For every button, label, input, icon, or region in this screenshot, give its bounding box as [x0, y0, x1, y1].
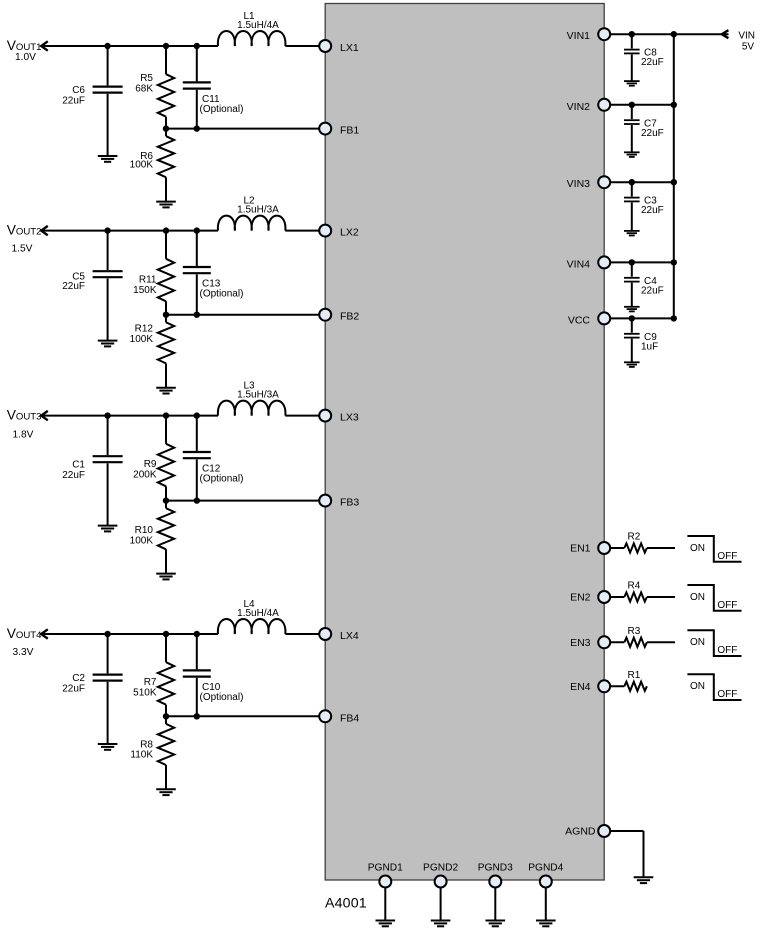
- ground under R6: [156, 202, 176, 208]
- pin EN2: [598, 591, 610, 603]
- value label C8 22uF: [641, 48, 664, 68]
- pin FB3: [319, 495, 331, 507]
- ground under C2: [98, 744, 118, 750]
- value label L4 1.5uH/4A: [237, 599, 279, 619]
- value label C12 (Optional): [200, 464, 244, 485]
- wire FB4 net: [166, 715, 325, 717]
- wire R4 to switch: [647, 596, 675, 598]
- svg-text:1.5uH/3A: 1.5uH/3A: [237, 390, 279, 401]
- junction at C10 top: [194, 631, 200, 637]
- svg-text:EN1: EN1: [570, 543, 591, 555]
- wire AGND to ground: [604, 831, 643, 877]
- junction C3 top: [629, 179, 635, 185]
- svg-text:68K: 68K: [135, 84, 153, 95]
- wire FB3 net: [166, 500, 325, 502]
- inductor L2: [218, 216, 286, 231]
- pin PGND3: [489, 876, 501, 888]
- svg-text:1.5uH/4A: 1.5uH/4A: [237, 608, 279, 619]
- svg-text:5V: 5V: [742, 42, 755, 53]
- svg-text:VIN: VIN: [738, 31, 755, 42]
- junction bus at VIN4: [671, 259, 677, 265]
- wire LX4 from inductor to pin: [285, 633, 325, 635]
- junction C4 top: [629, 259, 635, 265]
- capacitor C11 (optional): [183, 46, 211, 129]
- svg-text:OFF: OFF: [717, 689, 737, 700]
- svg-text:ON: ON: [690, 637, 705, 648]
- svg-text:FB3: FB3: [340, 497, 359, 509]
- value label C11 (Optional): [200, 94, 244, 115]
- svg-text:FB1: FB1: [340, 125, 359, 137]
- pin PGND1: [379, 876, 391, 888]
- svg-text:100K: 100K: [130, 160, 154, 171]
- svg-text:22uF: 22uF: [62, 281, 85, 292]
- junction C13 bottom: [194, 312, 200, 318]
- wire EN4 pin to resistor: [604, 685, 624, 687]
- pin FB4: [319, 710, 331, 722]
- junction R11/R12 divider node: [163, 312, 169, 318]
- svg-text:1uF: 1uF: [641, 341, 658, 352]
- switch EN2 ON/OFF: [687, 585, 741, 611]
- pin PGND4: [540, 876, 552, 888]
- value label C7 22uF: [641, 118, 664, 139]
- ground under C7: [624, 152, 640, 157]
- value label R12 100K: [130, 324, 154, 346]
- resistor R12: [158, 315, 174, 388]
- svg-text:C1: C1: [72, 460, 85, 471]
- wire FB2 net: [166, 314, 325, 316]
- svg-text:22uF: 22uF: [641, 128, 664, 139]
- junction bus at VCC: [671, 315, 677, 321]
- svg-text:LX2: LX2: [340, 227, 359, 239]
- wire PGND4 to ground: [545, 887, 547, 921]
- svg-text:ON: ON: [690, 543, 705, 554]
- value label C2 22uF: [62, 673, 85, 695]
- resistor R7: [158, 634, 174, 716]
- ground PGND3: [486, 921, 506, 927]
- pin LX1: [319, 40, 331, 52]
- junction R9/R10 divider node: [163, 497, 169, 503]
- svg-text:R2: R2: [628, 532, 641, 543]
- svg-text:VCC: VCC: [568, 314, 591, 326]
- svg-text:(Optional): (Optional): [200, 692, 244, 703]
- pin LX2: [319, 225, 331, 237]
- value label R9 200K: [133, 459, 157, 481]
- wire VOUT2 output net with arrow: [41, 226, 218, 235]
- svg-text:FB2: FB2: [340, 311, 359, 323]
- svg-text:(Optional): (Optional): [200, 104, 244, 115]
- wire VOUT4 output net with arrow: [41, 629, 218, 638]
- svg-text:22uF: 22uF: [641, 205, 664, 216]
- svg-text:VOUT4: VOUT4: [7, 626, 42, 641]
- svg-text:PGND4: PGND4: [528, 862, 563, 873]
- pin EN4: [598, 680, 610, 692]
- wire EN3 pin to resistor: [604, 641, 624, 643]
- switch EN4 ON/OFF: [687, 674, 741, 700]
- svg-text:PGND3: PGND3: [478, 862, 513, 873]
- resistor R5: [158, 46, 174, 129]
- ground PGND1: [376, 921, 396, 927]
- svg-text:FB4: FB4: [340, 712, 359, 724]
- svg-text:VIN2: VIN2: [567, 101, 591, 113]
- junction at C11 top: [194, 43, 200, 49]
- value label R6 100K: [130, 151, 154, 171]
- svg-text:VIN3: VIN3: [567, 178, 591, 190]
- pin PGND2: [435, 876, 447, 888]
- wire VIN bus vertical: [673, 34, 675, 318]
- capacitor C13 (optional): [183, 231, 211, 315]
- value label R8 110K: [130, 739, 153, 760]
- svg-text:R4: R4: [628, 581, 641, 592]
- junction bus at VIN2: [671, 102, 677, 108]
- wire VIN3 to bus: [604, 181, 674, 183]
- pin LX4: [319, 628, 331, 640]
- svg-text:1.5V: 1.5V: [12, 243, 33, 254]
- capacitor C6: [93, 46, 123, 156]
- capacitor C8: [624, 34, 640, 80]
- ground under C6: [98, 156, 118, 162]
- capacitor C9: [624, 318, 640, 361]
- pin VIN1: [598, 28, 610, 40]
- ground PGND2: [431, 921, 451, 927]
- svg-text:1.8V: 1.8V: [13, 429, 34, 440]
- svg-text:R5: R5: [140, 73, 153, 84]
- ground under C4: [624, 307, 640, 312]
- junction at R11 top: [163, 227, 169, 233]
- junction C7 top: [629, 102, 635, 108]
- value label C1 22uF: [62, 460, 85, 482]
- svg-text:110K: 110K: [130, 749, 153, 760]
- junction C11 bottom: [194, 125, 200, 131]
- svg-text:R9: R9: [144, 459, 157, 470]
- value label R11 150K: [133, 275, 157, 297]
- capacitor C3: [624, 182, 640, 230]
- junction at R7 top: [163, 631, 169, 637]
- wire VIN2 to bus: [604, 104, 674, 106]
- wire LX1 from inductor to pin: [285, 45, 325, 47]
- wire VOUT3 output net with arrow: [41, 411, 218, 420]
- ground under R12: [156, 388, 176, 394]
- svg-text:OFF: OFF: [717, 551, 737, 562]
- wire EN2 pin to resistor: [604, 596, 624, 598]
- pin VIN3: [598, 176, 610, 188]
- junction at C13 top: [194, 227, 200, 233]
- capacitor C7: [624, 105, 640, 152]
- pin VIN4: [598, 256, 610, 268]
- IC U1 A4001 body: [325, 4, 604, 881]
- junction C10 bottom: [194, 713, 200, 719]
- pin AGND: [598, 825, 610, 837]
- capacitor C4: [624, 262, 640, 306]
- ground under C9: [624, 362, 640, 367]
- capacitor C2: [93, 634, 123, 744]
- resistor R6: [158, 129, 174, 202]
- svg-text:22uF: 22uF: [62, 470, 85, 481]
- svg-text:1.0V: 1.0V: [15, 52, 36, 63]
- svg-text:C2: C2: [72, 673, 85, 684]
- value label C9 1uF: [641, 332, 658, 353]
- wire VOUT1 output net with arrow: [41, 41, 218, 50]
- junction C9 top: [629, 315, 635, 321]
- capacitor C5: [93, 231, 123, 341]
- junction bus at VIN1: [671, 31, 677, 37]
- svg-text:R10: R10: [135, 525, 154, 536]
- wire LX3 from inductor to pin: [285, 415, 325, 417]
- svg-text:AGND: AGND: [565, 826, 596, 838]
- value label L2 1.5uH/3A: [237, 196, 279, 216]
- svg-text:510K: 510K: [133, 688, 157, 699]
- svg-text:22uF: 22uF: [641, 285, 664, 296]
- svg-text:(Optional): (Optional): [200, 474, 244, 485]
- svg-text:100K: 100K: [130, 536, 154, 547]
- svg-text:R12: R12: [135, 324, 154, 335]
- value label R5 68K: [135, 73, 153, 95]
- inductor L3: [218, 401, 286, 416]
- ground under C1: [98, 526, 118, 532]
- junction at C5 output cap: [104, 227, 110, 233]
- pin VIN2: [598, 99, 610, 111]
- inductor L4: [218, 619, 286, 634]
- resistor R4: [624, 592, 647, 601]
- junction at C1 output cap: [104, 412, 110, 418]
- svg-text:OFF: OFF: [717, 645, 737, 656]
- pin FB1: [319, 123, 331, 135]
- wire VCC to bus: [604, 317, 674, 319]
- svg-text:22uF: 22uF: [641, 57, 664, 68]
- svg-text:22uF: 22uF: [62, 684, 85, 695]
- value label L3 1.5uH/3A: [237, 381, 279, 401]
- svg-text:150K: 150K: [133, 285, 157, 296]
- svg-text:R11: R11: [139, 275, 157, 286]
- wire PGND1 to ground: [384, 887, 386, 921]
- wire PGND3 to ground: [494, 887, 496, 921]
- svg-text:VOUT3: VOUT3: [7, 408, 42, 423]
- junction C12 bottom: [194, 497, 200, 503]
- svg-text:1.5uH/4A: 1.5uH/4A: [237, 20, 279, 31]
- wire R2 to switch: [647, 547, 675, 549]
- resistor R3: [624, 638, 647, 647]
- wire VIN1 to bus: [604, 33, 674, 35]
- svg-text:1.5uH/3A: 1.5uH/3A: [237, 205, 279, 216]
- svg-text:VOUT2: VOUT2: [7, 223, 42, 238]
- wire LX2 from inductor to pin: [285, 230, 325, 232]
- value label R7 510K: [133, 677, 157, 699]
- svg-text:VOUT1: VOUT1: [7, 38, 42, 53]
- svg-text:R7: R7: [144, 677, 157, 688]
- ground under R10: [156, 574, 176, 580]
- value label L1 1.5uH/4A: [237, 11, 279, 31]
- ground AGND: [634, 877, 654, 883]
- svg-text:LX3: LX3: [340, 412, 359, 424]
- svg-text:ON: ON: [690, 681, 705, 692]
- svg-text:PGND1: PGND1: [368, 862, 403, 873]
- svg-text:LX4: LX4: [340, 630, 359, 642]
- value label C10 (Optional): [200, 682, 244, 703]
- svg-text:ON: ON: [690, 592, 705, 603]
- resistor R9: [158, 416, 174, 501]
- switch EN1 ON/OFF: [687, 536, 741, 562]
- pin FB2: [319, 309, 331, 321]
- pin VCC: [598, 312, 610, 324]
- capacitor C1: [93, 416, 123, 526]
- wire VIN input with arrow: [674, 30, 729, 38]
- resistor R8: [158, 716, 174, 789]
- svg-text:EN3: EN3: [570, 637, 591, 649]
- value label C4 22uF: [641, 276, 664, 297]
- wire R3 to switch: [647, 641, 675, 643]
- pin EN1: [598, 542, 610, 554]
- value label C5 22uF: [62, 272, 85, 293]
- junction at C6 output cap: [104, 43, 110, 49]
- svg-text:R1: R1: [628, 670, 641, 681]
- junction R7/R8 divider node: [163, 713, 169, 719]
- junction at C12 top: [194, 412, 200, 418]
- ground under C3: [624, 231, 640, 236]
- svg-text:OFF: OFF: [717, 600, 737, 611]
- svg-text:22uF: 22uF: [62, 96, 85, 107]
- switch EN3 ON/OFF: [687, 630, 741, 656]
- wire VIN4 to bus: [604, 261, 674, 263]
- value label C13 (Optional): [200, 279, 244, 300]
- pin LX3: [319, 410, 331, 422]
- svg-text:PGND2: PGND2: [423, 862, 458, 873]
- node VIN 5V label: [738, 31, 755, 53]
- svg-text:A4001: A4001: [325, 896, 367, 912]
- svg-text:EN2: EN2: [570, 592, 591, 604]
- wire EN1 pin to resistor: [604, 547, 624, 549]
- resistor R11: [158, 231, 174, 315]
- svg-text:VIN1: VIN1: [567, 30, 591, 42]
- junction R5/R6 divider node: [163, 125, 169, 131]
- svg-text:C6: C6: [72, 85, 85, 96]
- ground under C8: [624, 81, 640, 86]
- inductor L1: [218, 31, 286, 46]
- svg-text:(Optional): (Optional): [200, 289, 244, 300]
- svg-text:R3: R3: [628, 626, 641, 637]
- svg-text:100K: 100K: [130, 334, 154, 345]
- junction at R9 top: [163, 412, 169, 418]
- wire FB1 net: [166, 128, 325, 130]
- value label C3 22uF: [641, 196, 664, 217]
- resistor R2: [624, 543, 647, 552]
- resistor R1: [624, 682, 647, 691]
- svg-text:VIN4: VIN4: [567, 258, 591, 270]
- ground PGND4: [536, 921, 556, 927]
- junction C8 top: [629, 31, 635, 37]
- junction at R5 top: [163, 43, 169, 49]
- resistor R10: [158, 501, 174, 574]
- junction at C2 output cap: [104, 631, 110, 637]
- ground under R8: [156, 789, 176, 795]
- svg-text:3.3V: 3.3V: [13, 647, 34, 658]
- svg-text:LX1: LX1: [340, 42, 359, 54]
- junction bus at VIN3: [671, 179, 677, 185]
- svg-text:EN4: EN4: [570, 681, 591, 693]
- capacitor C10 (optional): [183, 634, 211, 716]
- ground under C5: [98, 341, 118, 347]
- wire PGND2 to ground: [440, 887, 442, 921]
- capacitor C12 (optional): [183, 416, 211, 501]
- value label R10 100K: [130, 525, 154, 547]
- value label C6 22uF: [62, 85, 85, 107]
- pin EN3: [598, 636, 610, 648]
- svg-text:200K: 200K: [133, 470, 157, 481]
